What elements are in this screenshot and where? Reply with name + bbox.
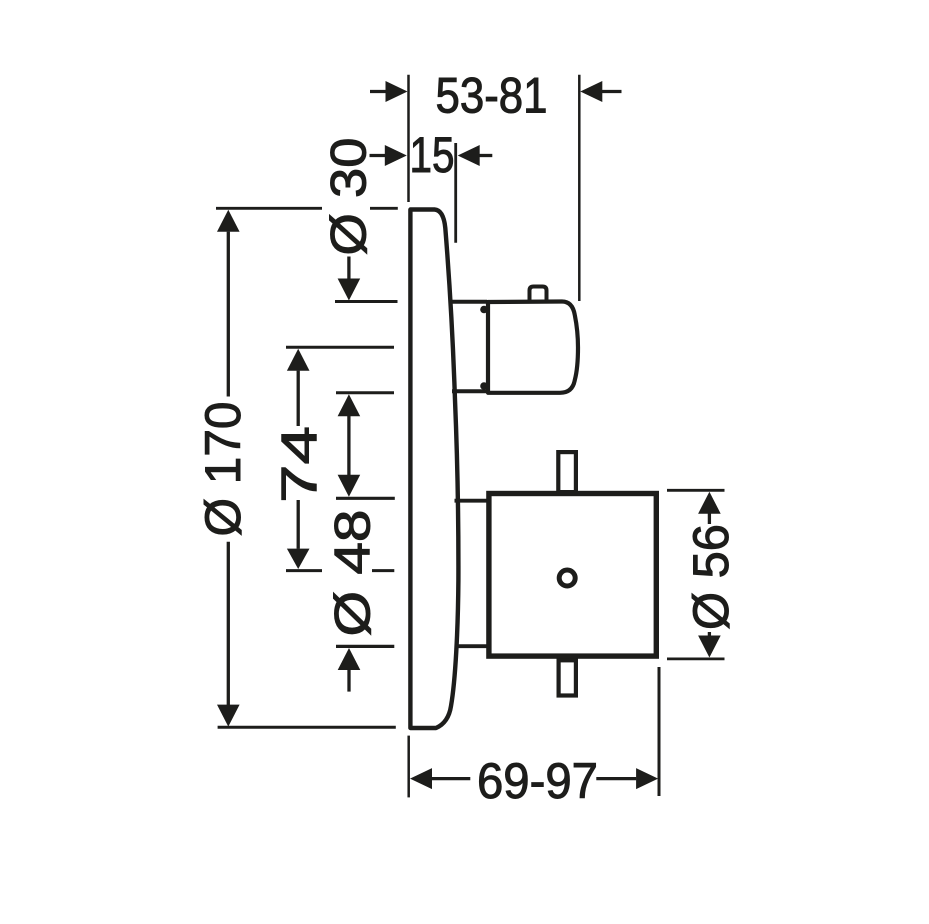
- top spindle: [558, 452, 576, 492]
- svg-text:Ø 170: Ø 170: [195, 402, 251, 537]
- extension line right of 53-81: [578, 75, 581, 301]
- svg-text:Ø 30: Ø 30: [321, 138, 377, 256]
- top extension line of D170 (through D30 label): [216, 207, 322, 210]
- dim 74 vertical line with arrows: [287, 349, 310, 569]
- dim D170 vertical line with arrows: [217, 210, 240, 727]
- tick 74 bottom / valve axis (two segments around 48 label): [286, 569, 322, 572]
- double arrow between D30 bottom and D48 top: [338, 394, 361, 497]
- escutcheon plate (side view): [410, 210, 458, 729]
- valve body square: [489, 494, 656, 657]
- dim 15 left arrow: [370, 145, 407, 166]
- valve neck top line: [455, 499, 488, 503]
- svg-text:53-81: 53-81: [436, 68, 548, 124]
- bottom spindle: [559, 660, 576, 695]
- dim 53-81 left arrow: [370, 81, 408, 102]
- svg-text:Ø 48: Ø 48: [325, 510, 381, 637]
- dim 69-97 left arrow: [410, 768, 470, 789]
- thermostat handle body: [488, 302, 578, 393]
- handle neck bottom line: [452, 389, 487, 393]
- dim 69-97 right arrow: [596, 768, 658, 789]
- D56 top extension line: [667, 489, 725, 492]
- svg-text:69-97: 69-97: [477, 753, 598, 809]
- handle neck joint dots: [480, 306, 488, 314]
- extension line left of 53-81 / 15: [407, 75, 410, 202]
- tick 74 top (handle axis): [286, 346, 394, 349]
- center screw circle: [559, 570, 575, 586]
- extension line right of 15: [454, 143, 457, 243]
- tick handle top (D30 upper bound): [335, 300, 398, 303]
- bottom extension line of D170: [218, 726, 396, 729]
- D56 bottom extension line: [667, 658, 725, 661]
- 69-97 right extension line: [658, 667, 661, 796]
- dim D56 vertical line with arrows: [698, 492, 721, 658]
- svg-text:74: 74: [272, 426, 328, 503]
- svg-text:Ø 56: Ø 56: [683, 524, 739, 630]
- tick D48 bottom: [336, 645, 394, 648]
- handle grip tab: [530, 287, 547, 303]
- dim 15 right arrow: [458, 145, 493, 166]
- dim D30 upper arrow pointing down: [338, 257, 361, 301]
- tick D48 top: [336, 497, 395, 500]
- valve neck bottom line: [455, 644, 488, 648]
- dim 53-81 right arrow: [580, 81, 621, 102]
- tick handle bottom (D30 lower bound): [336, 391, 394, 394]
- handle neck top line: [452, 300, 487, 304]
- 69-97 left extension line: [407, 736, 410, 798]
- dim D48 lower arrow pointing up: [338, 648, 361, 692]
- svg-text:15: 15: [410, 127, 455, 183]
